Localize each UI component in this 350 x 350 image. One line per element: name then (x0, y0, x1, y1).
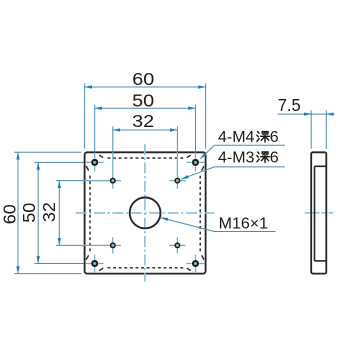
left dim 32: extension lines (56, 180, 84, 182)
side view recess step line bottom (315, 260, 326, 262)
svg-text:60: 60 (132, 69, 154, 89)
horizontal centerline of plate (76, 212, 215, 214)
label 4-M3: underline and leader (181, 167, 285, 179)
vertical centerline of plate (144, 144, 146, 282)
left dim 50: extension lines (34, 161, 84, 163)
svg-text:32: 32 (132, 111, 154, 131)
front view plate outline (85, 152, 206, 273)
crosshair M3 hole top-right (169, 172, 185, 188)
crosshair M3 hole bottom-left (105, 237, 121, 253)
crosshair M4 hole bottom-right (187, 255, 205, 273)
svg-text:6: 6 (270, 149, 279, 166)
side view recess step line top (315, 165, 326, 167)
svg-text:4-M3: 4-M3 (218, 149, 255, 166)
hidden recess contour top (dashed) (105, 157, 186, 159)
side view recess step line vertical (314, 166, 316, 261)
kanji deep (hand drawn) for M4 label (257, 132, 270, 142)
svg-text:7.5: 7.5 (278, 95, 301, 115)
top dim 60: extension lines (84, 83, 86, 148)
top dim 50: dimension line (95, 107, 196, 109)
crosshair M4 hole top-right (187, 154, 205, 172)
hidden recess contour left (dashed) (89, 173, 91, 253)
left dim 32: dimension line (58, 181, 60, 246)
M3 hole inner teal dots (112, 180, 179, 247)
crosshair M3 hole bottom-right (169, 237, 185, 253)
left dim 60: dimension line (17, 152, 19, 273)
M4 hole rings (92, 160, 198, 266)
left dim 50: dimension line (37, 162, 39, 263)
center hole M16 circle (130, 198, 161, 229)
top dim 32: extension lines (112, 126, 114, 152)
svg-text:6: 6 (270, 129, 279, 146)
svg-text:M16×1: M16×1 (219, 216, 269, 233)
svg-text:50: 50 (19, 203, 39, 223)
label M16x1: underline and leader (161, 218, 276, 232)
top dim 50: extension lines (94, 105, 96, 154)
crosshair M3 hole top-left (105, 172, 121, 188)
top dim 32: dimension line (113, 129, 178, 131)
side view outline (311, 152, 326, 273)
svg-text:4-M4: 4-M4 (218, 129, 255, 146)
dim 7.5: dimension line with outside arrows (278, 113, 312, 115)
dim 7.5: extension lines (310, 111, 312, 149)
left dim 60: extension lines (14, 151, 81, 153)
kanji deep (hand drawn) for M3 label (257, 152, 270, 162)
svg-text:50: 50 (132, 91, 154, 111)
hidden recess contour right (dashed) (199, 173, 201, 253)
side view horizontal centerline (305, 212, 334, 214)
crosshair M4 hole bottom-left (86, 255, 104, 273)
label 4-M4: underline (200, 145, 285, 159)
svg-text:32: 32 (39, 202, 59, 222)
hidden recess contour bottom (dashed) (105, 267, 186, 269)
M4 hole inner teal dots (94, 161, 197, 264)
M3 hole rings (111, 178, 180, 247)
top dim 60: dimension line (85, 86, 206, 88)
crosshair M4 hole top-left (86, 154, 104, 172)
svg-text:60: 60 (0, 204, 19, 224)
